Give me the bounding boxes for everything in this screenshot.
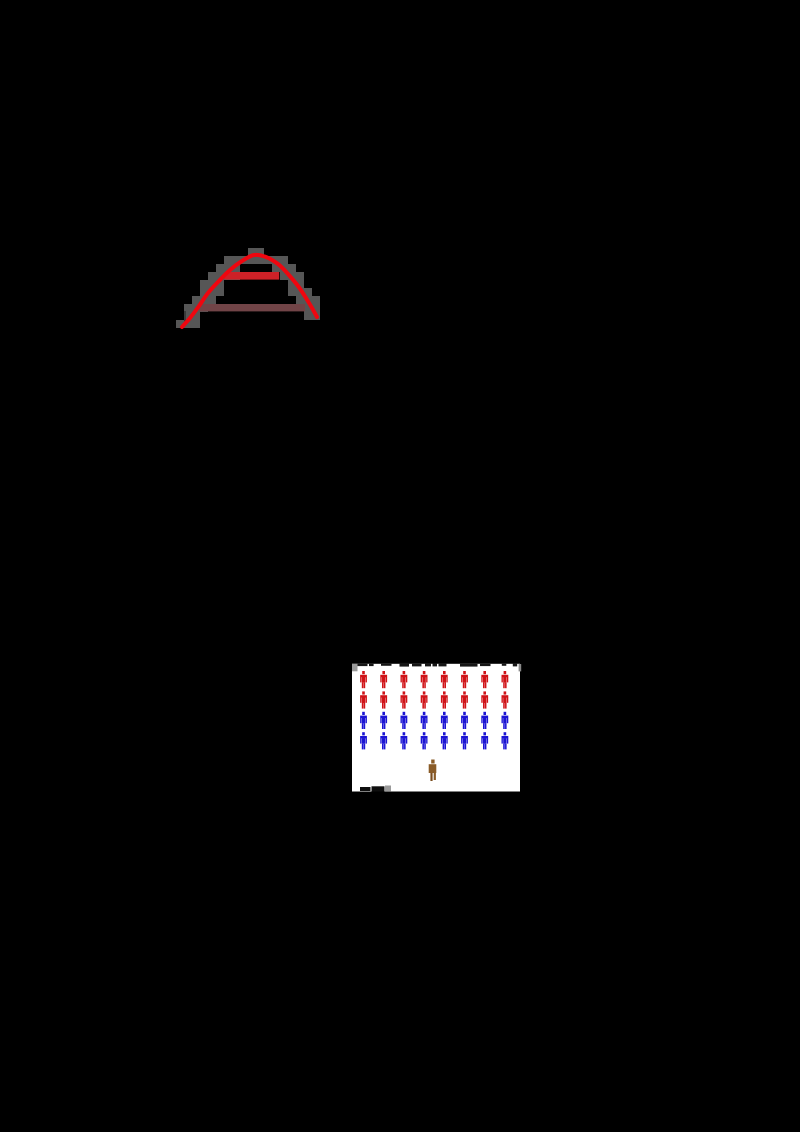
axis tick line left of curve base: [184, 311, 185, 326]
gray block at box top-left corner: [352, 664, 358, 672]
row 2 red persons: [360, 691, 508, 708]
row 3 blue persons: [360, 712, 508, 729]
row 4 blue persons: [360, 732, 508, 749]
gray artifact at box bottom-left: [385, 786, 391, 792]
caption text fragments at box bottom-left corner: [360, 786, 385, 791]
single brown person below the grid: [429, 760, 437, 782]
red bell curve: [182, 255, 317, 327]
caption text fragments along box top edge: [358, 663, 518, 667]
bright red upper bar (narrow): [224, 272, 279, 280]
jpeg artifact halo blocks around bell curve: [176, 248, 320, 328]
gray artifact at box top-right edge: [519, 664, 522, 671]
figure box (white): [352, 664, 520, 792]
row 1 red persons: [360, 671, 508, 688]
dark red lower bar (wide): [200, 304, 306, 311]
